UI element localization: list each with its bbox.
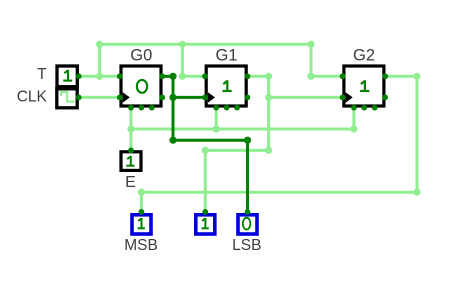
pin dots of G2 (340, 73, 346, 79)
wire net Q1: horizontal y=150.4 to output riser (205, 149, 268, 152)
wire net Q2: vertical at x=417 (416, 76, 419, 192)
node E net junction below G1 (213, 125, 220, 132)
wire net Q0: vertical at x=173 (172, 76, 175, 140)
wire net E: riser to G1 enable (215, 108, 218, 129)
svg-text:T: T (37, 66, 47, 83)
pin dot: CLK output (76, 95, 82, 101)
node Q2 net corner bottom right (413, 189, 420, 196)
wire net T: drop to G1.T (182, 44, 205, 76)
node Q1 net corner above middle output (202, 147, 209, 154)
node T net junction top bus (179, 41, 186, 48)
pin dot: LSB input (245, 209, 251, 215)
output MSB box (132, 215, 151, 234)
node Q2 net corner right of G2 (413, 73, 420, 80)
node T net corner top-left (96, 41, 103, 48)
svg-text:G0: G0 (130, 46, 152, 64)
value 0 of LSB (243, 218, 251, 230)
node E net junction below E riser (127, 125, 134, 132)
pin dots of G0 (117, 73, 123, 79)
node E net corner below G2 (350, 125, 357, 132)
node Q0 net junction at G1 clock row (169, 94, 176, 101)
node Q0 net corner above LSB (244, 137, 251, 144)
wire net Q0: drop to LSB output (246, 140, 249, 212)
wire net T: top horizontal bus y=44.3 (100, 43, 311, 46)
flip-flop G0 body (121, 66, 161, 106)
node T net corner above G2 (307, 73, 314, 80)
node Q0 net junction right of G0 (169, 73, 176, 80)
wire net Q1: drop to middle output (204, 150, 207, 212)
node T net corner top right (307, 41, 314, 48)
wire net Q0: branch to G1 clock wedge (173, 96, 205, 99)
wire net Q2: drop to MSB output (140, 192, 143, 212)
clock CLK box (57, 89, 77, 108)
output middle box (196, 215, 215, 234)
node T net junction at T-output (96, 73, 103, 80)
value label 1 of input E (126, 156, 134, 166)
pin dot: MSB input (139, 209, 145, 215)
svg-text:CLK: CLK (17, 89, 48, 106)
pin dot: middle output input (202, 209, 208, 215)
pin dots of G1 (202, 73, 208, 79)
node Q2 net corner above MSB (138, 189, 145, 196)
svg-text:G1: G1 (215, 46, 237, 64)
svg-text:MSB: MSB (124, 237, 158, 254)
flip-flop G2 body (344, 66, 384, 106)
wire net Q1: G1.Q to junction (247, 75, 268, 78)
wire net Q1: branch to G2 clock wedge (269, 96, 343, 99)
wire net Q2: G2.Q to corner (385, 75, 417, 78)
pin dot: E output (128, 148, 134, 154)
value 1 of G2 (360, 80, 369, 91)
node T net corner above G1 (179, 73, 186, 80)
wire net CLK: clock to G0 clock wedge (79, 96, 120, 99)
flip-flop G1 body (206, 66, 246, 106)
clock waveform glyph (61, 92, 75, 102)
value label 1 of input T (63, 70, 72, 81)
wire net Q2: long horizontal y=192.2 (141, 191, 417, 194)
wire net Q0: G0.Q to junction (162, 75, 173, 78)
wire net E: horizontal bus y=129 (131, 128, 354, 131)
value 1 of middle output (202, 218, 209, 228)
wire net E: E input riser (130, 108, 133, 151)
node Q1 net junction right of G1 (265, 73, 272, 80)
value 1 of MSB (138, 218, 145, 228)
wire net E: riser to G2 enable (352, 108, 355, 129)
wire net Q0: horizontal y=140.2 (173, 139, 248, 142)
clock wedge of G1 (208, 92, 215, 103)
svg-text:G2: G2 (353, 46, 375, 64)
value 1 of G1 (223, 80, 232, 91)
output LSB box (238, 215, 257, 234)
svg-text:E: E (125, 174, 136, 191)
input T box (57, 66, 77, 87)
node Q1 net corner at y=150.4 (265, 147, 272, 154)
wire net Q1: vertical at x=268.6 (267, 76, 270, 150)
wire net T: input T to G0.T (79, 75, 120, 78)
pin dot: T output (76, 73, 82, 79)
clock wedge of G2 (346, 92, 353, 103)
value 0 of G0 (137, 80, 147, 93)
node Q0 net corner at y=140.2 (169, 137, 176, 144)
input E box (121, 152, 141, 171)
svg-text:LSB: LSB (232, 237, 261, 254)
node Q1 net junction at G2 clock row (265, 94, 272, 101)
wire net T: drop to G2.T (311, 44, 343, 76)
wire net T: vertical riser at x=99.6 (98, 44, 101, 76)
clock wedge of G0 (123, 92, 130, 103)
